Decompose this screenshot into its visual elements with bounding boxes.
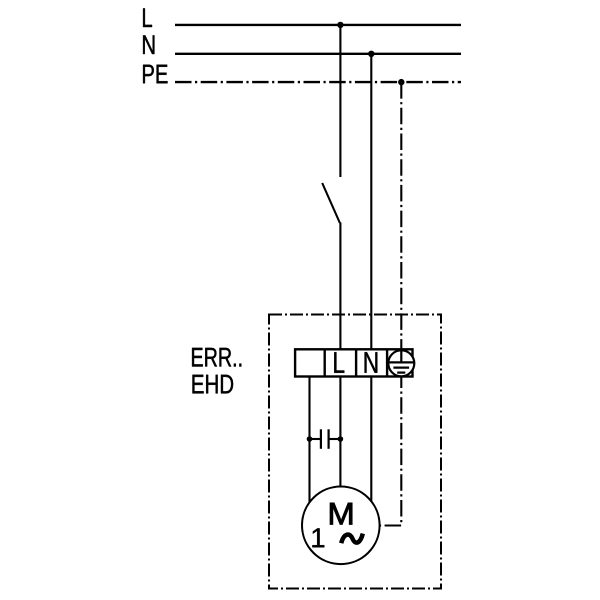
wire PE supply line <box>175 81 461 83</box>
earth symbol stem <box>400 349 402 361</box>
motor phase 1 <box>312 528 324 547</box>
wire L terminal to motor <box>339 378 341 488</box>
wire switch to terminal L <box>339 223 341 349</box>
motor M1 circle <box>302 487 380 565</box>
wire N down to terminal <box>370 54 372 349</box>
earth symbol bar long <box>389 361 414 363</box>
junction dot PE <box>398 79 404 85</box>
wire L supply line <box>175 24 461 26</box>
terminal separator 3 <box>386 349 388 376</box>
node L label <box>143 8 152 27</box>
earth symbol bar mid <box>393 367 409 369</box>
label EHD <box>193 375 234 394</box>
terminal L label <box>334 352 344 373</box>
device outline box ERR../EHD <box>269 315 441 589</box>
earth terminal circle <box>388 350 414 376</box>
junction dot L <box>337 22 343 28</box>
wire N supply line <box>175 53 461 55</box>
terminal N label <box>365 352 378 373</box>
capacitor C wire right <box>330 438 341 440</box>
wire PE down to earth terminal <box>400 82 402 349</box>
capacitor C plate left <box>320 429 322 449</box>
motor tilde <box>341 534 363 544</box>
junction dot capacitor left <box>307 436 313 442</box>
node PE label <box>143 65 167 84</box>
earth symbol bar short <box>397 372 405 374</box>
junction dot N <box>368 51 374 57</box>
terminal separator 2 <box>355 349 357 376</box>
label ERR.. <box>192 348 241 367</box>
capacitor C wire left <box>310 438 321 440</box>
capacitor C plate right <box>328 429 330 449</box>
wire L down to switch <box>339 25 341 177</box>
node N label <box>143 35 154 54</box>
motor letter M <box>330 503 352 524</box>
wire PE below terminal to motor <box>380 378 402 526</box>
junction dot capacitor right <box>338 436 344 442</box>
wire auxiliary terminal to motor <box>308 378 310 503</box>
wire N terminal to motor <box>370 378 372 503</box>
terminal block outline <box>295 349 412 376</box>
terminal separator 1 <box>324 349 326 376</box>
switch S1 blade <box>322 183 340 223</box>
